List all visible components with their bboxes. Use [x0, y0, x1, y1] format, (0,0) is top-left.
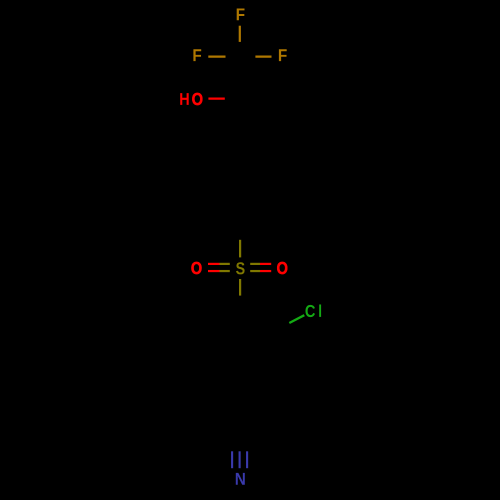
atom N (nitrile nitrogen) — [236, 473, 245, 485]
triple bond C11#N, middle line, N-colored half — [239, 451, 241, 468]
triple bond C11#N, left line, N-colored half — [231, 451, 233, 468]
atom O-H label "HO": H — [180, 93, 189, 105]
double bond S=O left, lower line, S-colored half — [220, 270, 230, 272]
double bond S=O left, lower line, O-colored half — [208, 270, 220, 272]
bond C2-O (hydroxyl), O-colored half — [208, 97, 224, 99]
bond S-C7 (sulfur to ring2), S-colored half — [239, 279, 241, 296]
double bond S=O right, lower line, O-colored half — [260, 270, 271, 272]
bond C1-F1 (top), F-colored half — [239, 26, 241, 42]
bond C1-F3 (right), F-colored half — [255, 55, 271, 57]
double bond S=O right, upper line, S-colored half — [250, 263, 260, 265]
atom Cl label: C — [305, 305, 315, 317]
triple bond C11#N, right line, N-colored half — [246, 451, 248, 468]
double bond S=O left, upper line, O-colored half — [208, 263, 220, 265]
bond C6-S (ring1 to sulfur), S-colored half — [239, 240, 241, 258]
bond C1-F2 (left), F-colored half — [208, 55, 225, 57]
bond C8-Cl, Cl-colored half — [289, 315, 304, 323]
atom F1 (top fluorine) — [237, 8, 245, 20]
atom F3 (right fluorine) — [279, 49, 287, 61]
double bond S=O right, lower line, S-colored half — [250, 270, 260, 272]
atom O (sulfonyl right oxygen) — [277, 262, 287, 274]
atom Cl label: l — [319, 304, 321, 316]
atom S (sulfonyl sulfur) — [236, 262, 245, 274]
double bond S=O right, upper line, O-colored half — [260, 263, 271, 265]
atom F2 (left fluorine) — [193, 49, 201, 61]
atom O-H label "HO": O — [192, 93, 202, 105]
atom O (sulfonyl left oxygen) — [191, 262, 201, 274]
double bond S=O left, upper line, S-colored half — [220, 263, 230, 265]
